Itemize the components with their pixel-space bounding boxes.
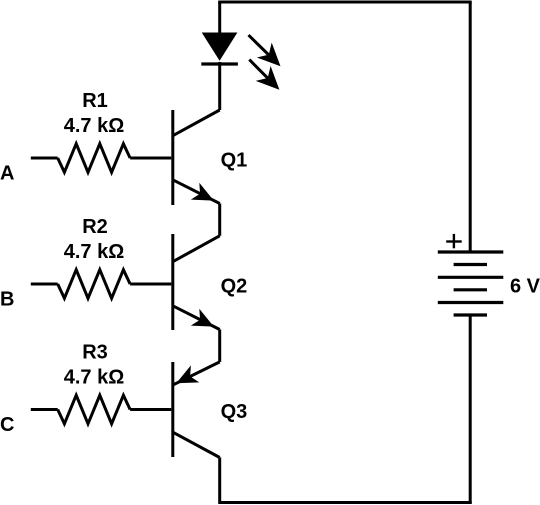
svg-text:Q3: Q3	[221, 401, 248, 423]
wire bottom rail	[220, 501, 472, 504]
wire LED anode from top rail	[218, 2, 221, 33]
wire right rail lower	[469, 315, 472, 504]
battery BT1 6V	[438, 252, 504, 315]
wire Q3 collector to bottom rail	[218, 458, 221, 505]
svg-text:4.7 kΩ: 4.7 kΩ	[64, 367, 125, 389]
svg-text:R3: R3	[82, 342, 108, 364]
svg-text:Q2: Q2	[221, 276, 248, 298]
transistor Q3	[173, 362, 220, 458]
resistor R3	[31, 395, 172, 424]
svg-text:4.7 kΩ: 4.7 kΩ	[64, 115, 125, 137]
wire node Q1 emitter to Q2 collector	[218, 204, 221, 236]
resistor R2	[31, 270, 172, 299]
wire top rail	[218, 1, 472, 4]
svg-text:R2: R2	[82, 216, 108, 238]
resistor R1	[31, 144, 172, 173]
svg-text:C: C	[0, 414, 14, 436]
transistor Q2	[173, 234, 220, 330]
svg-text:R1: R1	[82, 90, 108, 112]
svg-text:B: B	[0, 289, 14, 311]
battery plus sign	[446, 234, 462, 248]
svg-text:4.7 kΩ: 4.7 kΩ	[64, 241, 125, 263]
wire node Q2 emitter to Q3 emitter	[218, 330, 221, 362]
svg-text:Q1: Q1	[221, 150, 248, 172]
LED D1	[201, 33, 280, 90]
svg-text:A: A	[0, 163, 14, 185]
transistor Q1	[173, 110, 220, 205]
wire right rail upper	[469, 2, 472, 252]
wire LED cathode down to Q1 collector	[218, 62, 221, 110]
svg-text:6 V: 6 V	[510, 276, 540, 298]
